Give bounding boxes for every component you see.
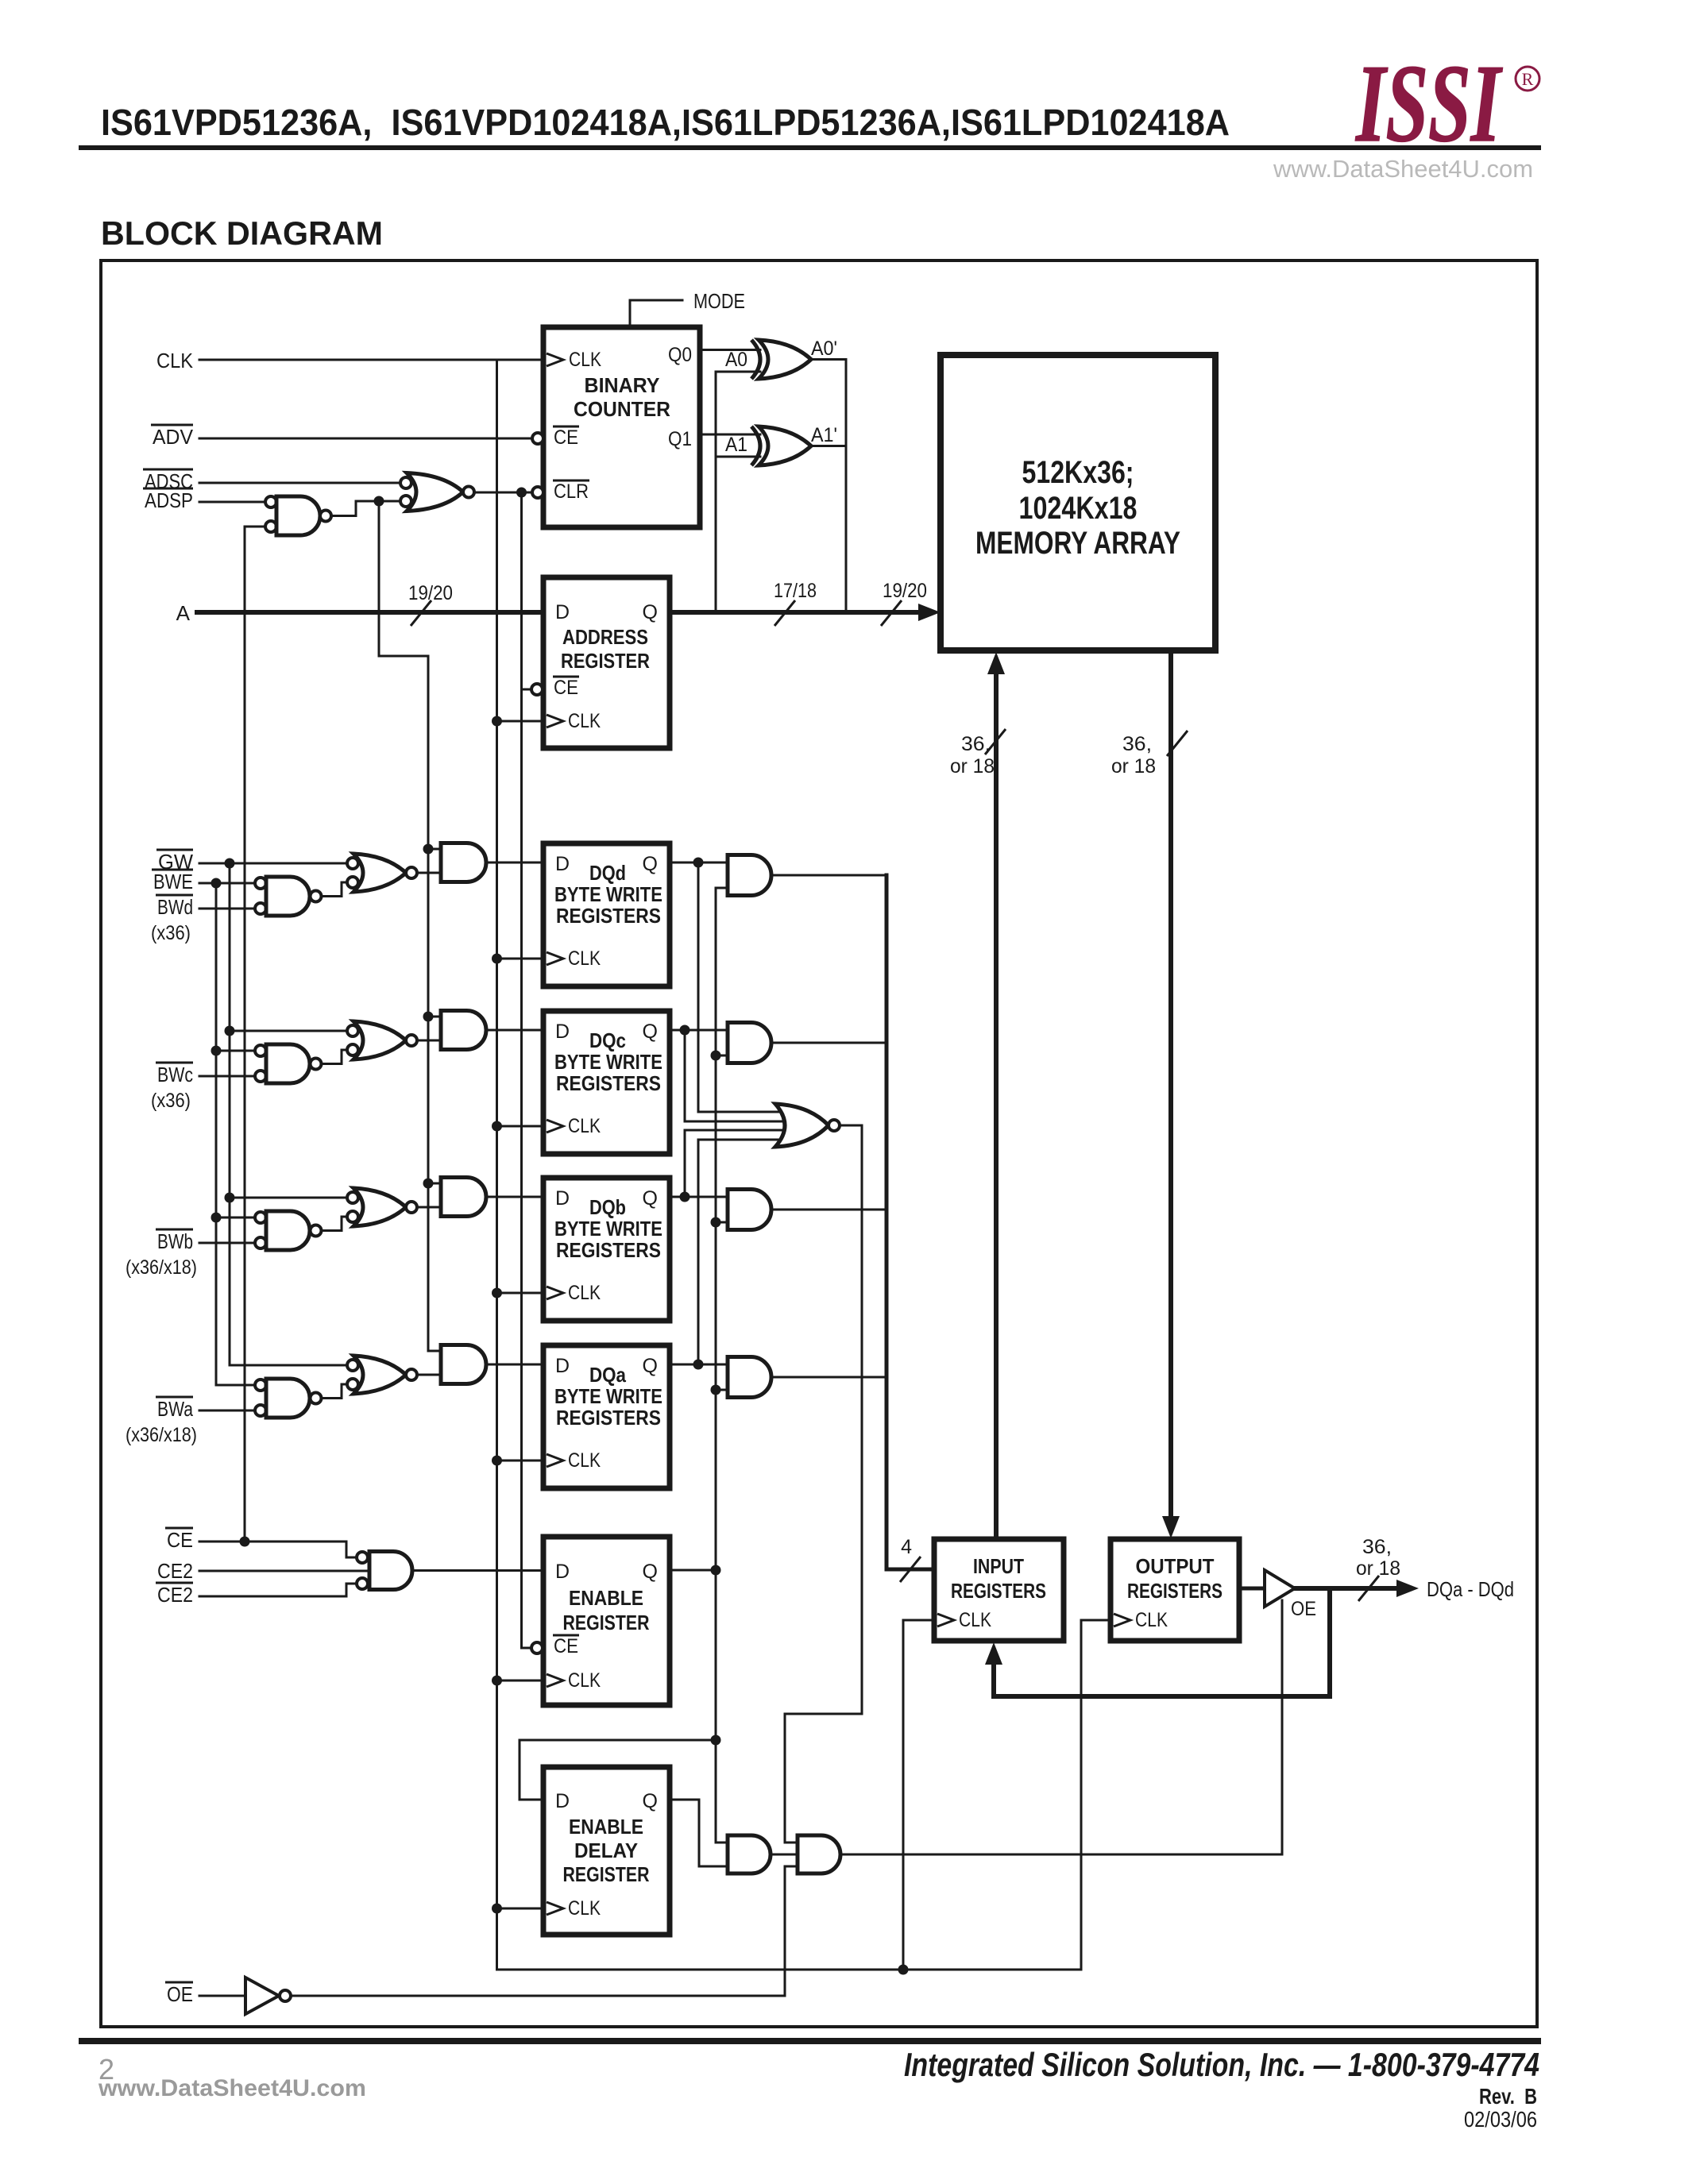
AND U12 output wire to OE control [840,1600,1282,1854]
svg-text:BWc: BWc [157,1063,193,1086]
NAND row DQd output bubble [311,891,322,902]
NAND U2 body [276,496,320,535]
NOR U3 output bubble [463,487,474,498]
OR row DQc input bubble 2 [347,1044,358,1055]
svg-text:CLK: CLK [569,349,601,371]
output registers CLK triangle [1114,1614,1130,1626]
svg-text:BWd: BWd [157,895,193,919]
memory write bus arrowhead [987,652,1005,674]
svg-text:REGISTER: REGISTER [563,1611,650,1634]
OR row DQc input bubble 1 [347,1025,358,1036]
OE input wire [199,1995,245,1997]
svg-text:A0': A0' [811,338,837,360]
register DQd CLK wire [497,958,544,960]
ISSI registered mark circle [1516,67,1539,91]
ADSC input overline [143,469,193,471]
AND U11 output wire [771,1854,798,1856]
CE input overline [165,1527,193,1530]
svg-text:D: D [555,853,570,875]
svg-text:CE: CE [554,677,578,699]
node CE joins ADSP NAND [240,1537,250,1547]
input registers CLK wire [903,1619,934,1622]
BWd input wire [199,908,255,910]
NAND row DQb output bubble [311,1225,322,1237]
title rule [79,145,1541,150]
svg-text:CLK: CLK [1135,1609,1168,1631]
node enable net delay tap [711,1735,721,1746]
OR row DQc output bubble [406,1035,417,1046]
register DQb CLK triangle [547,1287,563,1299]
svg-text:CE2: CE2 [157,1559,193,1583]
wire BWE to NAND row DQc [216,1050,255,1052]
node register DQb CLK tap [492,1288,502,1298]
NAND row DQc body [266,1044,310,1083]
svg-text:Q: Q [643,601,658,623]
svg-text:D: D [555,1187,570,1210]
enable register Q output wire [670,1569,716,1572]
CE2b input overline [156,1582,193,1584]
write bus width slash [985,729,1006,754]
AND row DQd output wire [486,862,543,864]
register DQd [543,843,670,986]
input registers CLK triangle [937,1614,954,1626]
BWc input wire [199,1075,255,1078]
node enable tap row DQa [711,1385,721,1395]
AND2 row DQb output wire [771,1209,886,1211]
svg-text:OUTPUT: OUTPUT [1136,1554,1215,1578]
svg-text:4: 4 [901,1536,912,1558]
AND2 row DQd output wire [771,874,886,877]
svg-text:Q0: Q0 [668,344,692,366]
NAND U8 input bubble CE2b [357,1578,368,1589]
wire BWE to NAND row DQb [216,1217,255,1219]
svg-text:or 18: or 18 [950,755,995,778]
NOR U3 input bubble 2 [400,496,411,507]
bus width 19/20 slash 2 [881,600,902,626]
wire A bus tap vertical [715,372,717,612]
AND U11 body [728,1835,771,1873]
XOR U5 body [759,426,811,465]
byte write enable bus [886,875,934,1569]
node BWE tap row DQb [211,1213,222,1223]
AND2 row DQa body [728,1357,771,1398]
svg-text:ENABLE: ENABLE [569,1586,643,1610]
wire BWE to NAND row DQa [216,1384,255,1387]
binary counter CLK pin triangle [547,353,563,366]
address register CE wire [522,689,532,691]
memory read data bus [1168,650,1173,1518]
node CLR junction [516,488,527,498]
svg-text:CLK: CLK [568,1669,601,1692]
svg-text:REGISTERS: REGISTERS [556,904,661,928]
svg-text:ENABLE: ENABLE [569,1815,643,1839]
register DQa Q wire [670,1364,728,1366]
MODE wire [630,300,682,327]
ADSP CE net vertical [244,527,246,1542]
svg-text:19/20: 19/20 [883,580,927,602]
NAND row DQa output bubble [311,1393,322,1404]
OR row DQa body [353,1356,406,1394]
node register DQc CLK tap [492,1121,502,1132]
node GW tap row DQc [225,1026,235,1036]
ADV input wire [199,438,531,440]
svg-text:A1': A1' [811,424,837,446]
ADSP input wire [199,501,265,504]
CE input wire [199,1542,357,1557]
svg-text:DQb: DQb [589,1195,626,1219]
OR row DQb body [353,1188,406,1226]
DQ feedback arrowhead [985,1642,1002,1665]
NOR U7 body 4-input [775,1104,829,1147]
address register U6 [543,577,670,748]
enable net vertical [715,888,717,1843]
svg-text:Q1: Q1 [668,428,692,450]
AND row DQa body [441,1345,486,1384]
svg-text:COUNTER: COUNTER [574,397,670,421]
AND row DQa top input wire [428,1350,441,1352]
wire GW to OR row DQb [230,1197,347,1199]
AND row DQc top input wire [428,1016,441,1018]
OR row DQa output bubble [406,1369,417,1380]
OR row DQa output wire [417,1374,441,1376]
BWE input wire [199,882,255,885]
NAND row DQb output step [322,1217,348,1231]
node GW tap row DQb [225,1193,235,1203]
input registers U14 [934,1539,1064,1641]
svg-text:REGISTER: REGISTER [563,1862,650,1886]
NOR U3 body [407,473,463,511]
svg-text:REGISTERS: REGISTERS [951,1579,1046,1603]
NAND row DQc output step [322,1050,348,1064]
DQ bus width slash [1358,1576,1379,1601]
svg-text:ADSP: ADSP [145,488,193,512]
svg-text:36,: 36, [1122,733,1152,755]
svg-text:BLOCK DIAGRAM: BLOCK DIAGRAM [101,214,383,252]
svg-text:REGISTERS: REGISTERS [556,1238,661,1262]
AND row DQc output wire [486,1029,543,1032]
enable delay D wire [520,1740,716,1800]
CE2b input wire [199,1584,357,1596]
XOR U4 body [759,340,811,379]
svg-text:17/18: 17/18 [774,580,817,602]
wire Q1 to XOR [700,434,760,436]
svg-text:CE: CE [554,1635,578,1657]
svg-text:DQa: DQa [589,1363,626,1387]
register DQb Q wire [670,1196,728,1198]
node DQa Q tap [693,1360,704,1370]
wire DQa Q to NOR [698,1140,784,1364]
register DQb [543,1178,670,1321]
svg-text:36,: 36, [1362,1536,1392,1558]
AND row DQc body [441,1011,486,1050]
svg-text:02/03/06: 02/03/06 [1464,2107,1537,2132]
NAND row DQd output step [322,882,348,897]
OE inverter output bubble [280,1990,291,2001]
enable delay CLK triangle [547,1902,563,1915]
svg-text:Q: Q [643,1790,658,1812]
svg-text:REGISTER: REGISTER [561,649,650,673]
wire A0' output [811,360,846,613]
enable register CLK triangle [547,1674,563,1687]
NAND row DQc output bubble [311,1059,322,1070]
register DQd CLK triangle [547,952,563,965]
svg-text:BWa: BWa [157,1397,193,1421]
svg-text:Q: Q [643,1355,658,1377]
register DQc CLK triangle [547,1120,563,1133]
NAND U2 input bubble CE [265,521,276,532]
binary counter U1 [543,327,700,527]
BWE input overline [152,869,193,871]
NAND row DQa body [266,1379,310,1418]
svg-text:D: D [555,1355,570,1377]
svg-text:REGISTERS: REGISTERS [1127,1579,1223,1603]
svg-text:(x36/x18): (x36/x18) [126,1256,197,1279]
svg-text:Rev. B: Rev. B [1479,2084,1537,2109]
OR row DQc output wire [417,1040,441,1042]
svg-text:CLK: CLK [568,1897,601,1920]
enable delay CLK wire [497,1908,544,1910]
memory array [941,355,1215,650]
AND row DQb body [441,1178,486,1217]
OE inverter U13 [245,1978,279,2014]
svg-text:IS61VPD51236A, IS61VPD102418A: IS61VPD51236A, IS61VPD102418A,IS61LPD512… [101,102,1230,143]
binary counter CE pin bubble [532,433,543,444]
DQ bus arrowhead [1396,1580,1419,1597]
NAND row DQa output step [322,1384,348,1399]
svg-text:OE: OE [1291,1598,1316,1620]
enable delay Q output wire [670,1800,728,1866]
wire DQc Q to NOR [685,1030,788,1121]
OR row DQd output wire [417,872,441,874]
register DQc [543,1011,670,1154]
node enable delay CLK tap [492,1904,502,1914]
OR row DQd body [353,854,406,892]
register DQb CLK wire [497,1292,544,1295]
address register CE pin bubble [531,684,543,695]
OR row DQa input bubble 1 [347,1360,358,1371]
wire Q0 to XOR [700,349,760,351]
binary counter CLR pin overline [553,480,589,482]
svg-text:Q: Q [643,1561,658,1583]
GW input wire [199,862,347,865]
ADV input overline [151,424,193,426]
svg-text:DQd: DQd [589,861,626,885]
NAND row DQd body [266,877,310,916]
BWa input wire [199,1410,255,1412]
wire A1 tap [716,456,760,458]
svg-text:DQc: DQc [589,1028,626,1052]
OE input overline [165,1981,193,1984]
AND2 row DQb body [728,1190,771,1230]
BWb input overline [156,1229,193,1231]
AND2 row DQd body [728,855,771,896]
svg-text:CLK: CLK [568,1449,601,1472]
svg-text:BINARY: BINARY [585,373,660,397]
NAND U8 output wire [412,1569,543,1572]
enable register CE pin bubble [531,1642,543,1653]
OR row DQb input bubble 2 [347,1211,358,1222]
node AND-chain tap row DQd [423,844,434,855]
node enable register CLK tap [492,1676,502,1686]
svg-text:(x36): (x36) [151,1090,191,1112]
AND U12 top input wire [785,1842,798,1844]
NAND row DQc input bubble 2 [255,1071,266,1082]
node register DQd CLK tap [492,954,502,964]
svg-text:ADDRESS: ADDRESS [562,625,648,649]
ADSP input overline [143,488,193,490]
DQ output bus [1295,1586,1396,1591]
AND U11 top input wire [716,1842,728,1844]
binary counter CE pin overline [553,426,579,428]
enable register CE pin overline [553,1634,579,1637]
register DQa CLK wire [497,1460,544,1462]
XOR U4 input arc [751,340,760,379]
node ADSx junction [374,496,384,507]
bus width 19/20 slash [411,600,431,626]
svg-text:D: D [555,1561,570,1583]
svg-text:CLR: CLR [554,480,589,503]
svg-text:CLK: CLK [959,1609,991,1631]
BWc input overline [156,1062,193,1064]
CLK input wire [199,359,543,361]
BWa input overline [156,1396,193,1399]
register DQc Q wire [670,1029,728,1032]
OR row DQd output bubble [406,867,417,878]
OR row DQb input bubble 1 [347,1192,358,1203]
NAND row DQb input bubble 1 [255,1212,266,1223]
AND2 row DQb bottom input wire [716,1221,728,1224]
node enable tap row DQb [711,1217,721,1228]
svg-text:BWE: BWE [153,870,193,893]
OR row DQc body [353,1021,406,1059]
node enable net Q join [711,1565,721,1576]
NAND row DQd input bubble 2 [255,903,266,914]
footer rule [79,2038,1541,2044]
svg-text:CE: CE [167,1528,193,1552]
svg-text:CLK: CLK [568,1115,601,1137]
NOR U3 input bubble 1 [400,477,411,488]
OR row DQb output bubble [406,1202,417,1213]
wire GW to OR row DQa [230,1364,347,1367]
register DQa CLK triangle [547,1454,563,1467]
enable delay register U10 [543,1767,670,1935]
svg-text:CLK: CLK [568,1282,601,1304]
wire DQd Q to NOR [698,862,784,1112]
svg-text:ADV: ADV [153,425,194,449]
node enable tap row DQc [711,1051,721,1061]
NAND U8 body [369,1552,412,1590]
wire GW to OR row DQc [230,1030,347,1032]
svg-text:CE: CE [554,426,578,449]
AND row DQd body [441,843,486,882]
OR row DQb output wire [417,1206,441,1209]
svg-text:A0: A0 [725,349,747,371]
CE2 input wire [199,1570,369,1572]
node address register CLK tap [492,716,502,727]
AND2 row DQa output wire [771,1376,886,1379]
register DQc CLK wire [497,1125,544,1128]
svg-text:OE: OE [167,1982,193,2006]
svg-text:INPUT: INPUT [973,1554,1024,1578]
svg-text:D: D [555,601,570,623]
AND U12 bottom vertical to OE [784,1866,786,1996]
GW net vertical [229,863,231,1365]
NAND row DQa input bubble 2 [255,1405,266,1416]
svg-text:Q: Q [643,1187,658,1210]
input registers CLK vertical [902,1620,905,1970]
svg-text:(x36): (x36) [151,922,191,944]
enable register CLK wire [497,1680,544,1682]
NOR U7 output net [785,1125,862,1843]
XOR U5 input arc [751,426,760,465]
NAND row DQa input bubble 1 [255,1379,266,1391]
svg-text:A1: A1 [725,434,747,456]
svg-text:CLK: CLK [568,710,601,732]
CLK distribution net [497,360,1111,1970]
svg-text:BYTE WRITE: BYTE WRITE [554,1217,662,1241]
node DQc Q tap [680,1025,690,1036]
output buffer U16 [1265,1570,1295,1607]
byte write bus width slash [900,1557,921,1582]
svg-text:Q: Q [643,1021,658,1043]
output registers Q wire [1239,1587,1265,1591]
GW input overline [156,849,193,851]
register DQa [543,1345,670,1488]
node AND-chain tap row DQb [423,1179,434,1189]
svg-text:www.DataSheet4U.com: www.DataSheet4U.com [1273,155,1533,183]
ADSC input wire [199,482,400,484]
NOR U7 output bubble [829,1120,840,1131]
CLR enable net vertical [522,492,532,1648]
AND row DQb output wire [486,1196,543,1198]
svg-text:DELAY: DELAY [574,1839,638,1862]
svg-text:CLK: CLK [156,349,194,372]
svg-text:CE2: CE2 [157,1583,193,1607]
wire ADSx to AND-chain [379,501,428,849]
memory write data bus [994,673,999,1539]
wire A0 tap [716,371,760,373]
svg-text:Integrated Silicon Solution, I: Integrated Silicon Solution, Inc. — 1-80… [904,2046,1539,2083]
node register CLK distribution [898,1965,909,1975]
AND U12 body [798,1835,840,1873]
node register DQa CLK tap [492,1456,502,1466]
svg-text:D: D [555,1790,570,1812]
NAND U2 output step wire [331,501,400,516]
svg-text:REGISTERS: REGISTERS [556,1406,661,1430]
BWb input wire [199,1242,255,1244]
svg-text:D: D [555,1021,570,1043]
NAND row DQc input bubble 1 [255,1045,266,1056]
OR row DQd input bubble 1 [347,858,358,869]
OR row DQa input bubble 2 [347,1379,358,1390]
svg-text:512Kx36;: 512Kx36; [1022,455,1134,490]
AND row DQb top input wire [428,1183,441,1185]
address register CLK wire [497,720,544,723]
AND2 row DQc output wire [771,1042,886,1044]
svg-text:BYTE WRITE: BYTE WRITE [554,1050,662,1074]
A bus arrowhead [918,604,941,621]
svg-text:MODE: MODE [693,289,745,313]
node DQd Q tap [693,858,704,868]
bus width 17/18 slash [774,600,795,626]
svg-text:A: A [176,601,191,625]
AND2 row DQd bottom input wire [716,887,728,889]
NAND U8 input bubble CE [357,1552,368,1563]
svg-text:R: R [1522,69,1534,89]
svg-text:or 18: or 18 [1111,755,1156,778]
AND U12 bottom input wire [785,1866,798,1868]
svg-text:REGISTERS: REGISTERS [556,1071,661,1095]
